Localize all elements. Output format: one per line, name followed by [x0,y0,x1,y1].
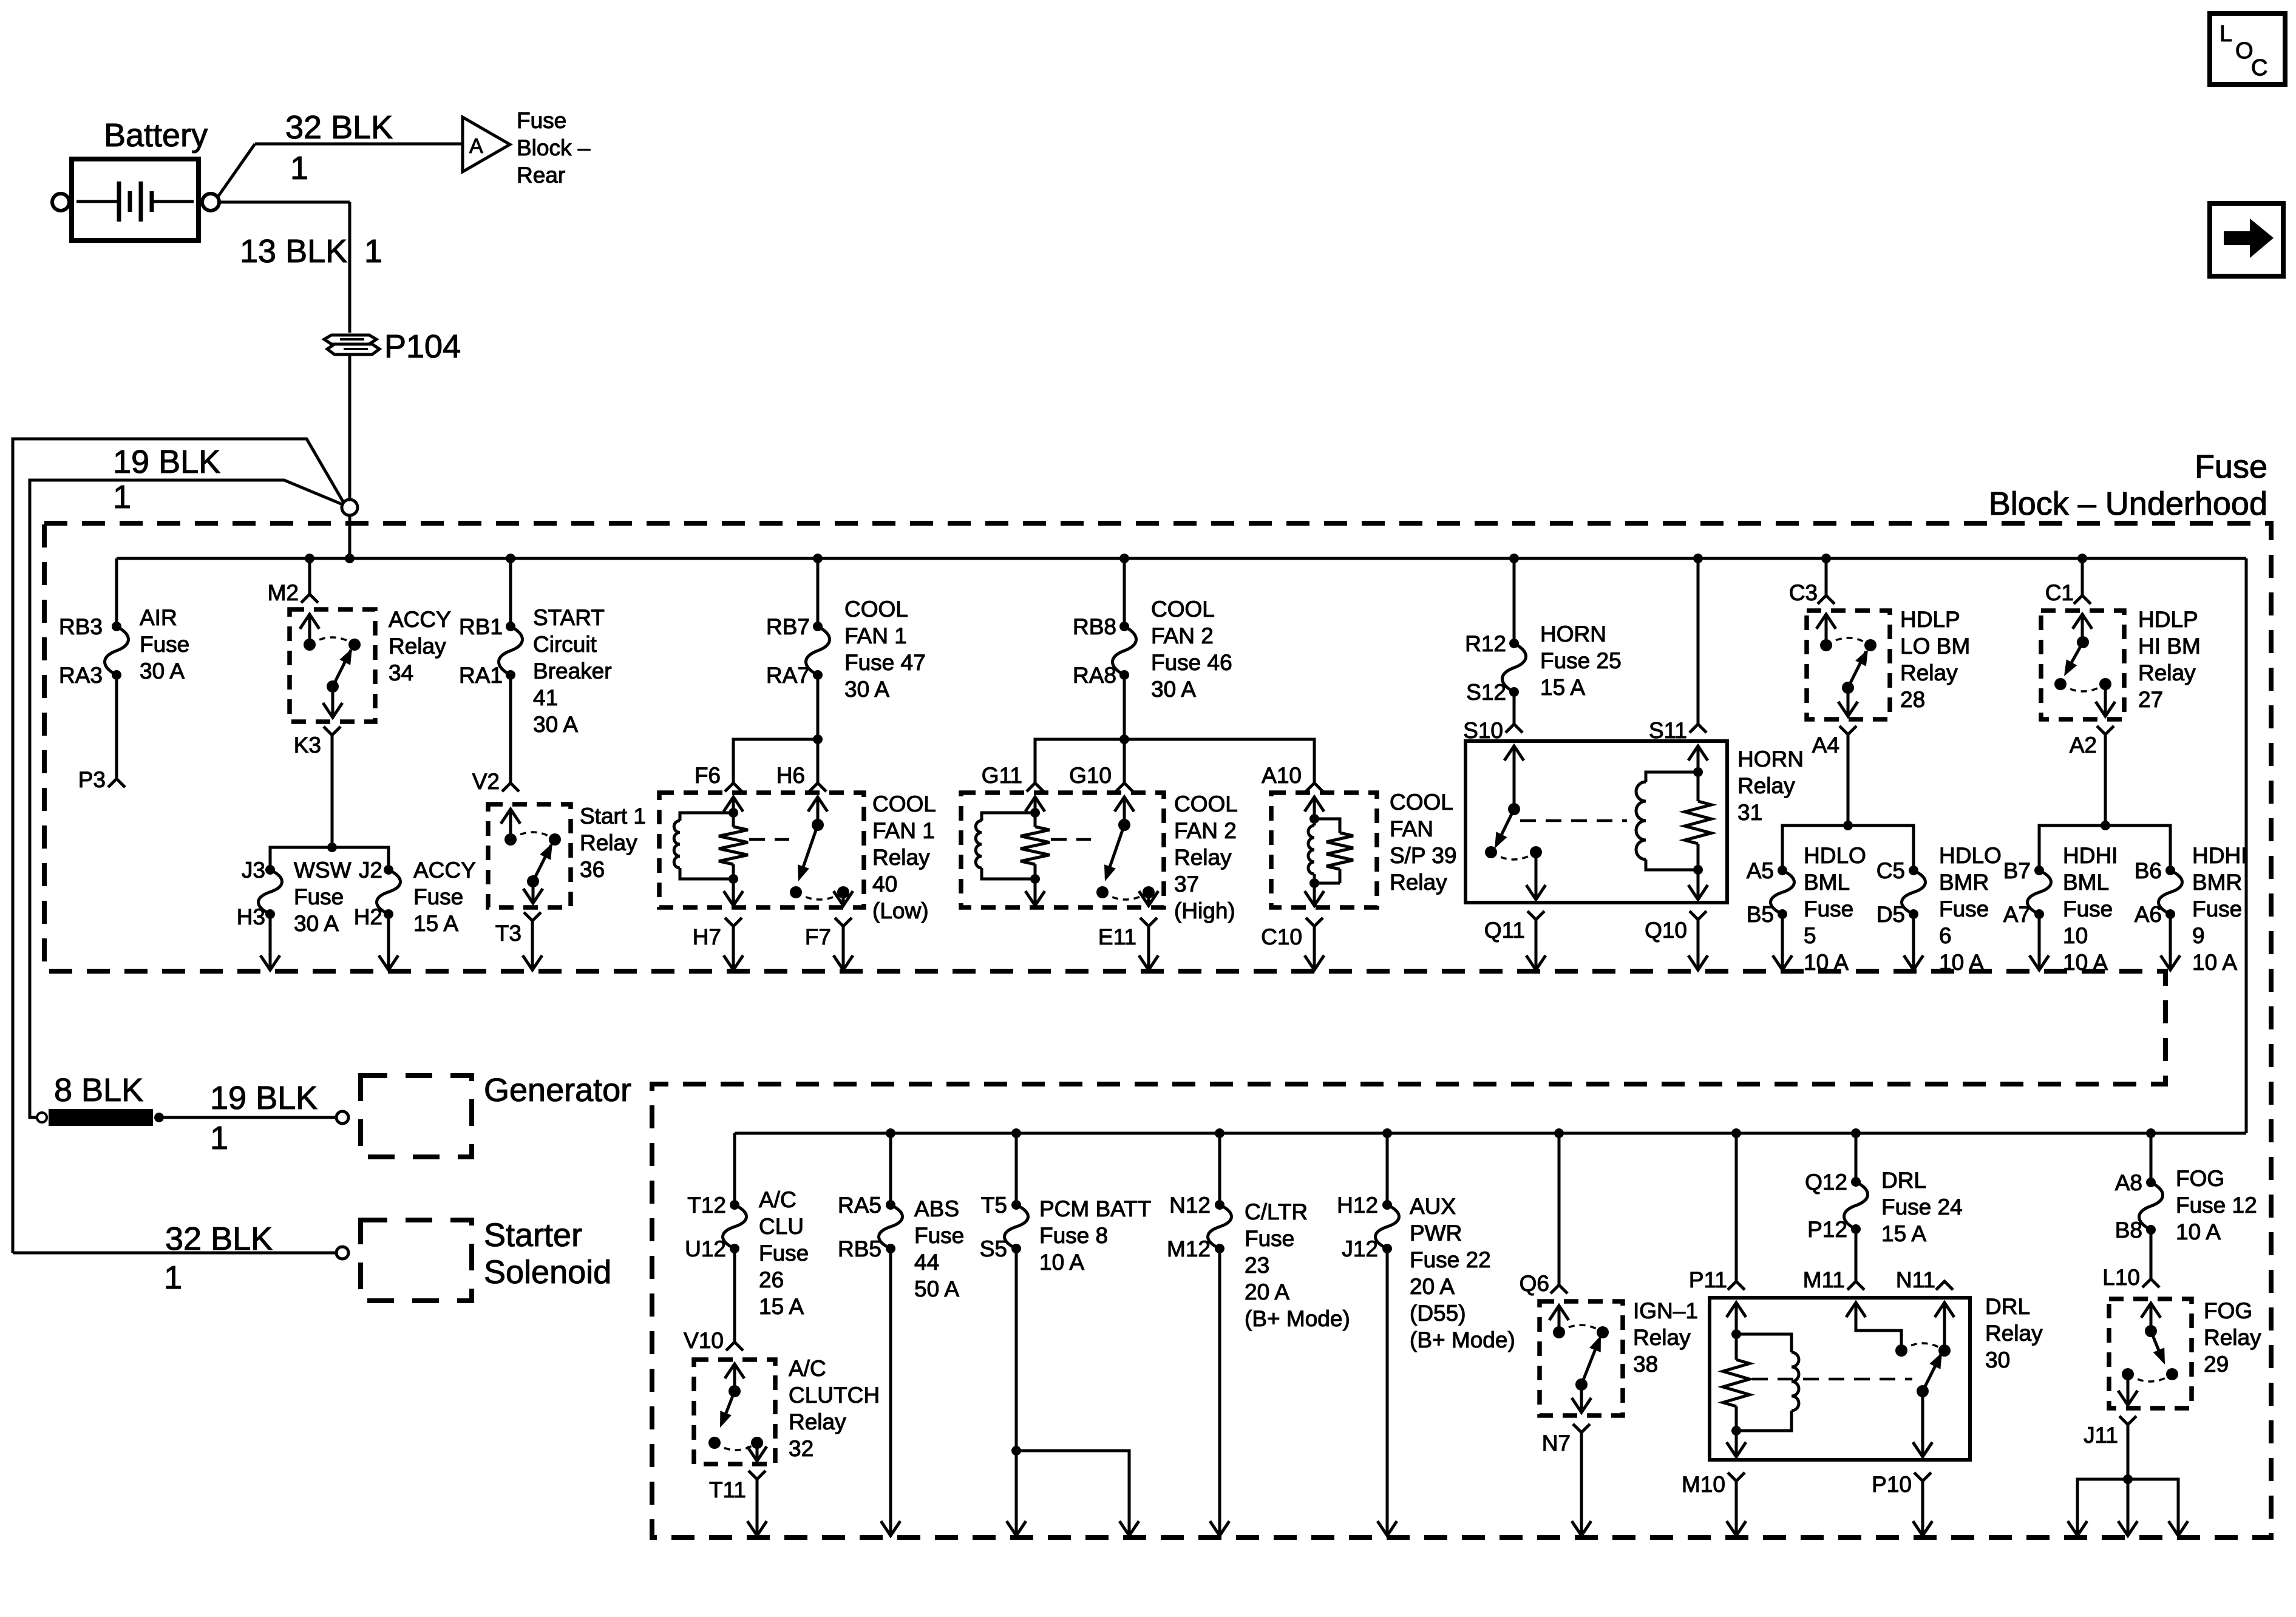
relay 32 output arrow [747,1437,767,1461]
svg-text:(B+ Mode): (B+ Mode) [1245,1306,1350,1331]
svg-text:PCM BATT: PCM BATT [1039,1196,1151,1221]
svg-text:Relay: Relay [1633,1325,1691,1350]
svg-text:Relay: Relay [2138,660,2196,685]
svg-text:Fuse: Fuse [517,108,566,133]
pin S11 [1690,724,1707,733]
svg-text:J11: J11 [2084,1423,2118,1448]
svg-text:A/C: A/C [759,1187,796,1212]
label C5 [1877,858,1905,883]
arrow H7 out [724,955,743,970]
label START Circuit Breaker 41 30A [533,605,612,737]
label H3 [237,904,265,929]
svg-text:P11: P11 [1689,1267,1727,1292]
svg-text:A6: A6 [2135,902,2162,927]
svg-text:HDLO: HDLO [1939,843,2002,868]
svg-text:HDHI: HDHI [2063,843,2118,868]
label B8 [2115,1218,2142,1242]
svg-text:C5: C5 [1877,858,1905,883]
label COOL FAN2 Fuse 46 30A [1151,597,1232,702]
wire 32 BLK to fuse block rear [218,144,461,197]
svg-text:DRL: DRL [1985,1294,2030,1319]
svg-text:Relay: Relay [389,634,446,659]
wire S5 down [1011,1249,1021,1534]
svg-text:Fuse 12: Fuse 12 [2176,1193,2257,1218]
svg-text:Fuse: Fuse [413,884,463,909]
svg-text:1: 1 [164,1259,182,1296]
arrow M10 out [1727,1521,1746,1536]
label Generator [484,1072,631,1108]
svg-text:B8: B8 [2115,1218,2142,1242]
arrow P10 out [1913,1521,1932,1536]
main bus wire [117,557,2246,560]
svg-text:RA5: RA5 [838,1193,881,1218]
relay COOL FAN2 37 box [961,793,1164,907]
label A10 [1262,763,1302,788]
svg-text:S11: S11 [1649,718,1687,743]
arrow B5 out [1773,955,1792,970]
svg-text:30 A: 30 A [294,911,339,936]
svg-text:V10: V10 [684,1328,724,1353]
label T11 [709,1477,746,1502]
label S10 [1463,718,1503,743]
lower bus junction dot x2860 [1731,1128,1741,1138]
svg-text:Fuse 24: Fuse 24 [1881,1195,1963,1219]
relay 31 contact arc [1491,852,1536,859]
wire bus to RB8 [1123,558,1126,626]
svg-text:Fuse: Fuse [914,1223,964,1248]
arrow C10 out [1305,955,1324,970]
label J3 [242,858,265,883]
svg-text:1: 1 [113,479,131,515]
svg-text:L: L [2220,21,2232,47]
battery B1 [52,159,219,240]
label E11 [1098,924,1136,949]
svg-text:M12: M12 [1167,1236,1211,1261]
svg-text:15 A: 15 A [1881,1221,1926,1246]
relay 30 contact arc [1901,1343,1944,1351]
label B5 [1747,902,1774,927]
wire J12 down [1386,1249,1389,1534]
label RA3 [59,663,103,688]
svg-text:30 A: 30 A [533,712,578,737]
fuse HDLO BMR 6 [1902,866,1926,919]
wire bus to R12 [1513,558,1516,643]
wire B8 to L10 [2150,1230,2153,1279]
relay 32 input arrow [725,1364,744,1397]
relay 34 contact arc [310,637,355,645]
svg-text:50 A: 50 A [914,1276,959,1301]
svg-text:L10: L10 [2102,1265,2140,1290]
bus junction dot x1347 [813,554,823,563]
svg-text:Fuse 8: Fuse 8 [1039,1223,1108,1248]
label 32 BLK b [165,1221,273,1257]
pin Q10 [1690,911,1707,920]
svg-text:T11: T11 [709,1477,746,1502]
svg-text:13 BLK: 13 BLK [240,233,347,269]
relay 29 input arrow [2141,1303,2161,1337]
wire lower bus to T12 [733,1133,736,1205]
svg-text:RA7: RA7 [766,663,810,688]
relay 40 contact arc [796,892,843,900]
wire Q11 down [1535,920,1538,969]
wire bus to M2 [308,558,311,594]
svg-text:F6: F6 [695,763,721,788]
svg-text:H12: H12 [1337,1193,1378,1218]
label Q6 [1520,1271,1549,1296]
wire bus to AIR fuse [115,558,118,626]
wire bus to Q12 [1855,1133,1858,1182]
svg-text:Relay: Relay [1174,845,1232,870]
svg-text:PWR: PWR [1410,1221,1462,1246]
lower bus junction dot x2285 [1382,1128,1392,1138]
arrow N7 out [1572,1521,1591,1536]
wire split to WSW [270,847,332,870]
svg-text:S/P 39: S/P 39 [1390,843,1456,868]
svg-text:26: 26 [759,1267,784,1292]
relay 28 fixed contact [1864,639,1877,651]
svg-text:Fuse 25: Fuse 25 [1540,648,1622,673]
pin G10 [1116,783,1133,792]
LOC icon [2210,13,2285,84]
arrow J11 right out [2169,1521,2188,1536]
lower bus junction dot x3543 [2146,1128,2156,1138]
pin H7 [725,918,742,926]
svg-text:J12: J12 [1342,1236,1378,1261]
label Q11 [1484,918,1525,943]
label J11 [2084,1423,2118,1448]
svg-text:FOG: FOG [2176,1166,2224,1191]
svg-text:B5: B5 [1747,902,1774,927]
relay 28 blade [1842,649,1868,694]
fuse COOL FAN2 46 [1113,622,1136,680]
label L10 [2102,1265,2140,1290]
svg-text:S5: S5 [980,1236,1007,1261]
svg-text:P12: P12 [1807,1217,1847,1242]
svg-text:R12: R12 [1465,631,1506,656]
svg-text:Fuse: Fuse [1804,897,1853,921]
label R12 [1465,631,1506,656]
relay 30 resistor [1723,1334,1750,1436]
pin L10 [2142,1279,2159,1287]
svg-text:HDLP: HDLP [2138,607,2198,632]
svg-text:10 A: 10 A [1804,950,1849,975]
label Q12 [1805,1170,1847,1195]
label COOL FAN1 Relay 40 Low [872,792,936,923]
wire 13 BLK [219,202,350,333]
svg-text:T12: T12 [687,1193,726,1218]
relay 30 mech link [1752,1378,1912,1381]
svg-text:AIR: AIR [140,605,177,630]
label T12 [687,1193,726,1218]
label V10 [684,1328,724,1353]
label ACCY Fuse 15A [413,858,476,936]
wire to A10 [1124,739,1314,783]
fuse COOL FAN1 47 [806,622,830,680]
label N11 [1896,1267,1935,1292]
label J12 [1342,1236,1378,1261]
svg-text:LO BM: LO BM [1900,634,1970,659]
label T3 [495,921,521,946]
wire 32 BLK to starter [13,1247,348,1259]
relay 36 fixed contact [549,833,561,846]
wire to C5 [1848,825,1914,870]
svg-text:36: 36 [580,857,605,882]
svg-text:U12: U12 [685,1236,726,1261]
svg-text:Fuse: Fuse [294,884,344,909]
svg-text:S10: S10 [1463,718,1503,743]
svg-text:(Low): (Low) [872,898,929,923]
relay 31 switch input arrow [1504,746,1524,815]
pin T3 [524,912,541,921]
label N12 [1169,1193,1211,1218]
relay 40 coil output arrow [724,879,743,906]
wire J11 down [2123,1425,2133,1484]
svg-text:J3: J3 [242,858,265,883]
fuse ABS 44 [879,1200,903,1253]
bus junction dot x3008 [1821,554,1831,563]
pin A2 [2097,726,2114,734]
label U12 [685,1236,726,1261]
bus junction dot x2797 [1693,554,1703,563]
label COOL FAN2 Relay 37 High [1174,792,1238,923]
bus right corridor wire [2245,558,2248,1133]
label Fuse Block - Rear [517,108,591,188]
relay 37 coil output arrow [1025,879,1045,906]
svg-text:Fuse 46: Fuse 46 [1151,650,1232,675]
svg-text:Relay: Relay [580,830,637,855]
label circuit 1 [290,150,308,186]
label RB3 [59,614,103,639]
lower bus wire [735,1132,2246,1135]
svg-text:DRL: DRL [1881,1168,1926,1193]
relay 34 input arrow [300,614,319,651]
label H6 [776,763,805,788]
bus junction dot x576 [345,554,355,563]
svg-text:10 A: 10 A [1039,1250,1084,1275]
relay 40 switch output arrow [834,886,853,906]
relay 29 blade [2151,1331,2178,1380]
wire bus to RB1 [509,558,512,626]
svg-text:(D55): (D55) [1410,1301,1466,1326]
inline connector P104 [324,335,379,354]
svg-text:(B+ Mode): (B+ Mode) [1410,1327,1515,1352]
wire to A5 [1782,825,1848,870]
label C3 [1789,580,1818,605]
fuse AC CLU 26 [723,1200,747,1253]
svg-text:A8: A8 [2115,1170,2142,1195]
svg-text:30 A: 30 A [844,677,889,702]
relay 37 coil input arrow [1025,797,1045,818]
svg-text:Q6: Q6 [1520,1271,1549,1296]
arrow A7 out [2029,955,2049,970]
relay 29 output arrow [2118,1368,2138,1405]
svg-text:15 A: 15 A [759,1294,804,1319]
svg-text:G11: G11 [982,763,1022,788]
pin P11 [1728,1281,1745,1290]
pin V2 [502,783,519,792]
wire RA1 to V2 [509,675,512,783]
label 32 BLK [285,109,393,146]
relay 30 switch output arrow [1913,1391,1932,1457]
svg-text:P10: P10 [1872,1472,1912,1497]
wire P12 to M11 [1855,1229,1858,1281]
svg-text:30 A: 30 A [1151,677,1196,702]
svg-text:A/C: A/C [789,1356,826,1381]
svg-text:10 A: 10 A [2176,1219,2221,1244]
svg-text:RB8: RB8 [1073,614,1116,639]
relay AC CLUTCH 32 box [694,1360,775,1464]
svg-text:Relay: Relay [789,1409,846,1434]
label COOL FAN SP 39 Relay [1390,790,1456,895]
svg-text:P3: P3 [78,767,106,792]
label RB5 [838,1236,881,1261]
label K3 [294,733,321,758]
wire D5 down [1912,914,1915,969]
label S11 [1649,718,1687,743]
svg-text:Fuse 22: Fuse 22 [1410,1247,1491,1272]
svg-text:RA1: RA1 [459,663,503,688]
svg-text:19 BLK: 19 BLK [113,444,220,480]
svg-text:RA3: RA3 [59,663,103,688]
wire H2 down [387,914,390,969]
generator box [361,1076,472,1157]
svg-text:10 A: 10 A [1939,950,1984,975]
relay 40 resistor [719,813,748,884]
relay 31 coil [1636,772,1698,870]
svg-text:N11: N11 [1896,1267,1935,1292]
relay HORN 31 box [1466,741,1727,903]
svg-text:20 A: 20 A [1245,1280,1289,1304]
svg-text:G10: G10 [1069,763,1112,788]
relay ACCY 34 box [290,609,375,722]
relay FOG 29 box [2109,1299,2192,1408]
svg-text:40: 40 [872,872,897,897]
label HDLP LO BM Relay 28 [1900,607,1970,712]
wire battery feed to junction [348,354,352,500]
svg-text:Starter: Starter [484,1217,582,1253]
label ACCY Relay 34 [389,607,451,685]
fuse AUX PWR 22 [1376,1200,1399,1253]
svg-text:A10: A10 [1262,763,1302,788]
pin K3 [324,727,341,735]
svg-text:19 BLK: 19 BLK [210,1080,318,1116]
starter solenoid box [361,1220,472,1301]
circuit breaker START 41 [499,622,523,680]
relay 40 mech link [749,838,789,841]
svg-text:F7: F7 [805,924,831,949]
svg-text:C: C [2251,55,2267,81]
svg-text:Relay: Relay [2204,1325,2261,1350]
arrow J11 mid out [2118,1521,2138,1536]
svg-text:RB1: RB1 [459,614,503,639]
pin C1 [2074,595,2091,604]
pin N7 [1573,1424,1590,1432]
wire junction into fuse block [348,515,352,558]
label circuit 1e [164,1259,182,1296]
bus junction dot x1852 [1119,554,1129,563]
svg-text:27: 27 [2138,687,2163,712]
fuse CLTR 23 [1208,1200,1232,1253]
svg-text:C/LTR: C/LTR [1245,1199,1308,1224]
label P10 [1872,1472,1912,1497]
svg-text:9: 9 [2192,923,2205,948]
label S12 [1466,680,1506,705]
relay 31 coil input arrow [1688,746,1708,777]
label H2 [354,904,382,929]
relay 27 blade [2054,642,2083,690]
wire RA3 to P3 [115,675,118,779]
svg-text:Generator: Generator [484,1072,631,1108]
wire to G11 [1035,739,1124,783]
svg-text:Fuse: Fuse [2063,897,2113,921]
relay 28 output arrow [1838,688,1858,716]
arrow A6 out [2161,955,2180,970]
label D5 [1877,902,1905,927]
wire C10 down [1313,926,1316,969]
svg-text:30: 30 [1985,1347,2010,1372]
fuse HDHI BML 10 [2028,866,2051,919]
label G11 [982,763,1022,788]
svg-text:COOL: COOL [1174,792,1238,816]
svg-text:10: 10 [2063,923,2088,948]
relay 37 resistor [1021,813,1050,884]
relay 36 contact arc [511,832,555,839]
wire A7 down [2038,914,2041,969]
bus junction dot x510 [305,554,314,563]
svg-text:1: 1 [290,150,308,186]
relay HDLP LO BM 28 box [1807,611,1890,719]
lower bus junction dot x2568 [1554,1128,1564,1138]
svg-text:5: 5 [1804,923,1816,948]
svg-text:Fuse: Fuse [140,632,189,657]
relay 34 fixed contact [348,639,361,651]
wire bus to T5 [1015,1133,1018,1205]
pin V10 [726,1342,743,1351]
svg-text:ACCY: ACCY [413,858,476,883]
wire 19 BLK upper branch [13,439,344,1253]
pin Q6 [1550,1285,1567,1293]
pin T11 [749,1471,766,1479]
svg-text:ACCY: ACCY [389,607,451,632]
relay 27 input arrow [2073,614,2092,648]
wire A4 down [1843,734,1853,830]
svg-text:Q12: Q12 [1805,1170,1847,1195]
svg-text:START: START [533,605,605,630]
svg-text:8 BLK: 8 BLK [54,1072,143,1108]
label RA5 [838,1193,881,1218]
svg-text:Solenoid: Solenoid [484,1254,611,1290]
pin F6 [725,783,742,792]
label A2 [2070,733,2097,758]
arrow J12 out [1377,1521,1397,1536]
relay 39 output arrow [1305,883,1324,906]
wire RA7 to junction [813,675,823,744]
svg-text:H7: H7 [693,924,721,949]
label circuit 1c [113,479,131,515]
svg-text:M2: M2 [268,580,299,605]
label AC CLU Fuse 26 15A [759,1187,809,1319]
wire B5 down [1781,914,1784,969]
svg-text:1: 1 [210,1120,228,1156]
fuse block underhood outline [44,523,2271,1537]
pin A10 [1306,783,1323,792]
svg-text:37: 37 [1174,872,1199,897]
label B6 [2135,858,2162,883]
wire S12 to S10 [1513,692,1516,724]
wire bus to RA5 [889,1133,892,1205]
svg-text:COOL: COOL [872,792,936,816]
relay 36 blade [527,843,552,887]
